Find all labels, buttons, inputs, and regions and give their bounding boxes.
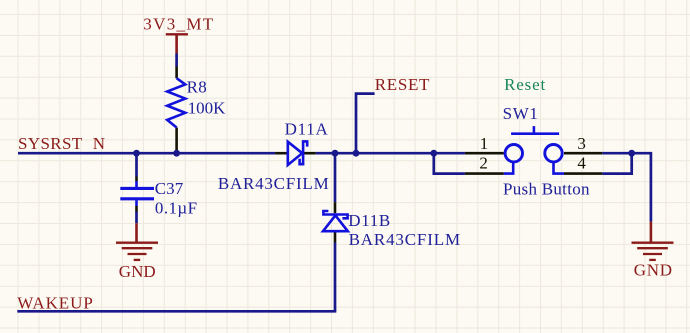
- svg-text:Reset: Reset: [504, 75, 545, 94]
- svg-text:100K: 100K: [188, 98, 226, 117]
- svg-text:R8: R8: [187, 78, 207, 97]
- svg-text:BAR43CFILM: BAR43CFILM: [218, 174, 329, 193]
- svg-text:GND: GND: [119, 262, 156, 281]
- svg-text:WAKEUP: WAKEUP: [17, 293, 93, 312]
- svg-text:3V3_MT: 3V3_MT: [143, 15, 214, 34]
- svg-text:SYSRST: SYSRST: [18, 134, 83, 153]
- svg-text:0.1µF: 0.1µF: [155, 199, 197, 218]
- svg-text:N: N: [93, 134, 105, 153]
- svg-text:Push Button: Push Button: [503, 180, 590, 199]
- svg-text:2: 2: [479, 153, 488, 172]
- svg-text:GND: GND: [634, 261, 672, 280]
- svg-text:1: 1: [480, 134, 489, 153]
- svg-text:D11A: D11A: [285, 119, 329, 138]
- svg-text:C37: C37: [155, 179, 184, 198]
- svg-text:D11B: D11B: [348, 211, 390, 230]
- svg-text:SW1: SW1: [503, 104, 538, 123]
- svg-text:BAR43CFILM: BAR43CFILM: [349, 230, 461, 249]
- svg-text:3: 3: [577, 134, 586, 153]
- svg-text:RESET: RESET: [375, 75, 430, 94]
- svg-text:4: 4: [577, 153, 586, 172]
